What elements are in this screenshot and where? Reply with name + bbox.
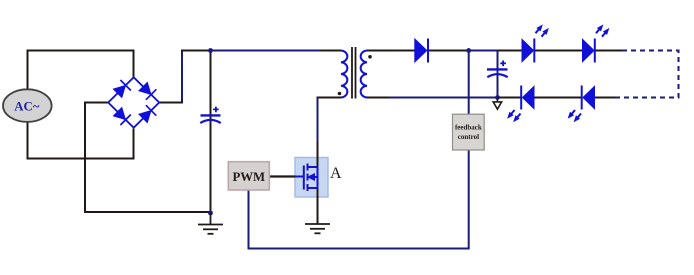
feedback control block xyxy=(453,114,485,150)
node diode output junction xyxy=(466,48,471,53)
wire C2 top to LED D2 xyxy=(498,50,523,52)
svg-text:feedback: feedback xyxy=(455,124,482,132)
wire diode D1 to node xyxy=(428,50,469,52)
LED D5 (bottom row) xyxy=(582,86,595,110)
diode bridge D-left-top xyxy=(112,80,130,98)
wire LED D3 to dashed continuation xyxy=(595,50,623,52)
LED D2 xyxy=(522,39,534,63)
diode bridge D-top-right xyxy=(138,81,156,99)
capacitor C2 xyxy=(487,61,508,78)
LED D4 (bottom row) xyxy=(521,86,534,110)
PWM controller block xyxy=(228,162,269,190)
wire output node to LED D4 xyxy=(498,97,523,99)
ground under bottom bus xyxy=(198,213,223,234)
transformer T1 secondary polarity dot xyxy=(368,55,372,59)
node output return junction xyxy=(495,95,500,100)
AC source V1 xyxy=(3,89,52,122)
diode bridge D-left-bottom xyxy=(112,107,130,125)
wire capacitor C1 riser xyxy=(210,51,212,214)
capacitor C1 xyxy=(200,107,220,123)
transistor Q1 MOSFET symbol xyxy=(295,164,318,192)
transformer T1 primary polarity dot xyxy=(338,92,342,96)
ground open-triangle at output return xyxy=(496,98,498,102)
transformer T1 secondary winding xyxy=(361,51,367,98)
svg-text:control: control xyxy=(458,133,479,141)
transformer T1 primary winding xyxy=(341,51,347,98)
LED D5 light arrows xyxy=(566,108,584,124)
wire transformer primary bottom pin to drain riser xyxy=(318,98,342,100)
wire transformer secondary bottom pin xyxy=(367,97,389,99)
transformer T1 core xyxy=(352,47,356,99)
LED D3 light arrows xyxy=(594,23,612,39)
wire dashed LED string continuation xyxy=(615,51,679,98)
wire node to capacitor C2 xyxy=(469,51,498,98)
LED D3 xyxy=(583,39,595,63)
diode bridge D-bottom-right xyxy=(138,105,156,123)
wire LED D2 to LED D3 xyxy=(535,50,583,52)
wire transformer secondary top pin to diode D1 xyxy=(367,50,415,52)
svg-text:A: A xyxy=(330,165,342,182)
wire drain riser black into MOSFET xyxy=(317,142,319,168)
wire output node down to feedback control xyxy=(468,51,470,115)
LED D4 light arrows xyxy=(505,108,523,124)
bridge rectifier frame xyxy=(108,77,159,127)
wire feedback control to PWM xyxy=(249,151,469,249)
wire LED D5 to LED D4 xyxy=(534,97,581,99)
wire AC bottom to bridge bottom xyxy=(28,122,134,159)
node top bus junction xyxy=(208,48,213,53)
MOSFET Q1 highlight box xyxy=(295,158,328,198)
wire PWM to MOSFET gate xyxy=(269,175,295,177)
wire transformer primary top pin xyxy=(320,50,341,52)
diode D1 output rectifier xyxy=(415,39,428,63)
wire top bus node to transformer primary xyxy=(211,50,321,52)
node bottom bus ground junction xyxy=(208,211,213,216)
svg-text:AC~: AC~ xyxy=(14,99,39,113)
wire secondary bottom to output node xyxy=(389,97,498,99)
svg-text:PWM: PWM xyxy=(232,170,265,184)
wire bridge right corner to top bus xyxy=(159,51,211,103)
ground under MOSFET source xyxy=(305,224,330,233)
wire dashed end to LED D5 xyxy=(595,97,616,99)
wire drain riser navy xyxy=(317,98,319,142)
wire AC top to bridge top xyxy=(28,51,134,90)
wire MOSFET source to ground xyxy=(317,188,319,225)
LED D2 light arrows xyxy=(533,23,551,39)
wire bridge left corner to bottom bus xyxy=(85,103,211,213)
wire riser navy overlay xyxy=(181,52,183,99)
